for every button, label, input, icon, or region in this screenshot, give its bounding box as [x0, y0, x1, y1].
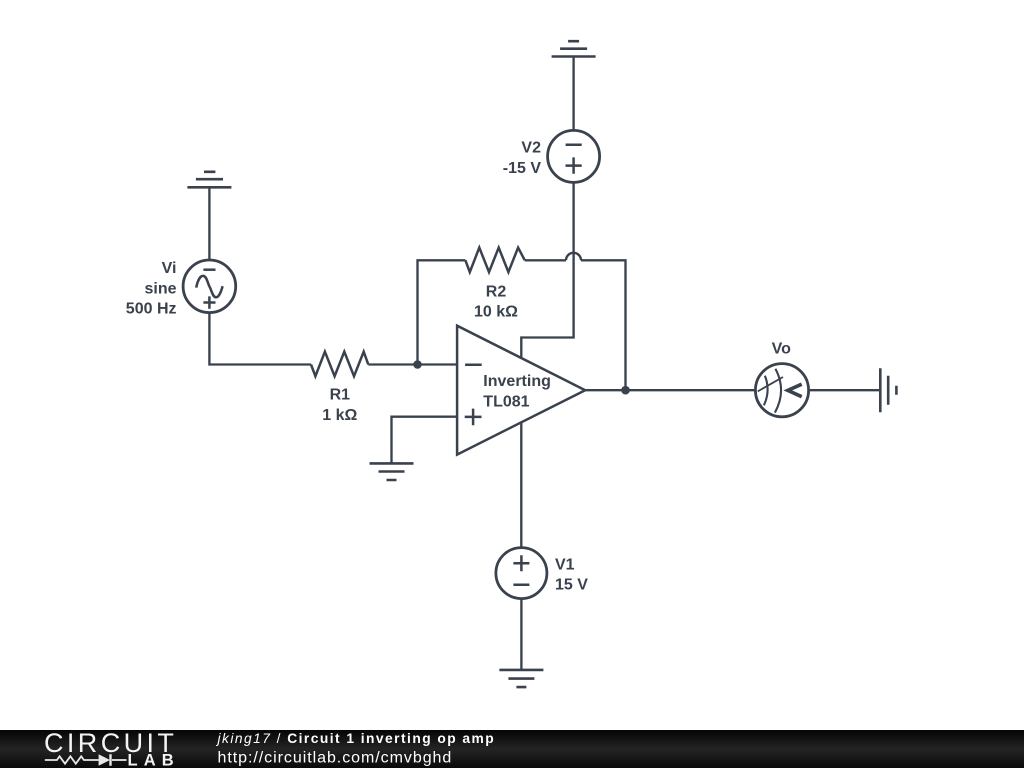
- wire junction up to R2: [418, 260, 466, 364]
- label V2 -15 V: [503, 140, 542, 177]
- voltmeter Vo: [755, 364, 808, 417]
- wire plus input to ground: [392, 417, 458, 464]
- svg-text:jking17 / Circuit 1 inverting: jking17 / Circuit 1 inverting op amp: [216, 731, 496, 746]
- label R1 1 kOhm: [322, 387, 357, 424]
- label V1 15 V: [555, 556, 588, 593]
- svg-text:10 kΩ: 10 kΩ: [474, 304, 518, 321]
- resistor R1: [311, 352, 368, 377]
- ground (above V2): [552, 41, 596, 130]
- svg-text:TL081: TL081: [483, 394, 529, 411]
- wire V1 to ground: [520, 599, 522, 670]
- svg-text:V2: V2: [521, 140, 541, 157]
- svg-text:sine: sine: [144, 280, 176, 297]
- svg-text:1 kΩ: 1 kΩ: [322, 407, 357, 424]
- label R2 10 kOhm: [474, 283, 518, 320]
- op-amp minus input symbol: [465, 364, 482, 367]
- node B (output junction): [621, 386, 630, 395]
- voltage source V1 (15 V): [496, 548, 547, 599]
- svg-text:R2: R2: [486, 283, 507, 300]
- label Inverting TL081: [483, 373, 551, 410]
- wire op-amp output to voltmeter: [585, 389, 755, 391]
- ground (above Vi): [187, 172, 231, 260]
- wire op-amp bottom power pin to V1: [520, 422, 522, 547]
- svg-text:Vi: Vi: [162, 260, 177, 277]
- svg-text:-15 V: -15 V: [503, 160, 542, 177]
- svg-text:500 Hz: 500 Hz: [126, 300, 177, 317]
- svg-text:LAB: LAB: [128, 752, 180, 768]
- op-amp plus input symbol: [465, 409, 482, 426]
- ground (below V1): [499, 670, 543, 687]
- svg-text:Inverting: Inverting: [483, 373, 551, 390]
- svg-text:R1: R1: [330, 387, 351, 404]
- footer bar: [0, 730, 1024, 768]
- wire R1 to op-amp inverting input: [368, 363, 457, 365]
- ground (below plus input): [370, 463, 414, 480]
- label Vi: [126, 260, 177, 317]
- node A (junction R1/R2/op-amp): [413, 360, 422, 369]
- wire V2 down to op-amp top power pin: [521, 182, 573, 357]
- wire hop over V2 line: [566, 253, 581, 261]
- ground (right of Vo, rotated): [880, 368, 896, 412]
- svg-text:http://circuitlab.com/cmvbghd: http://circuitlab.com/cmvbghd: [218, 750, 453, 767]
- logo diode triangle: [99, 754, 110, 766]
- voltage source Vi (sine, 500 Hz): [183, 260, 236, 313]
- wire R2 to hop: [525, 259, 566, 261]
- wire Vi to R1: [209, 313, 311, 365]
- logo resistor squiggle and diode: [45, 754, 127, 766]
- wire hop to output net: [581, 260, 626, 390]
- op-amp U1 triangle: [457, 326, 585, 455]
- svg-text:V1: V1: [555, 556, 575, 573]
- voltage source V2 (-15 V): [548, 130, 600, 182]
- svg-text:Vo: Vo: [772, 341, 791, 358]
- svg-text:15 V: 15 V: [555, 577, 588, 594]
- resistor R2: [465, 248, 524, 273]
- wire voltmeter to right ground: [809, 389, 881, 391]
